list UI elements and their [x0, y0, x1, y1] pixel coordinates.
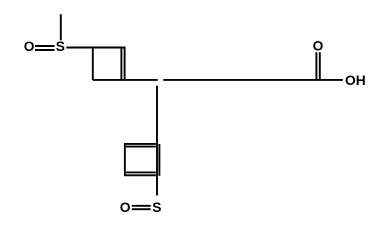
bond C=O2 line b: [319, 52, 321, 80]
bond rail left (ring1 bottom to junction): [93, 79, 158, 81]
svg-text:OH: OH: [345, 73, 366, 88]
bond methyl-S1: [60, 14, 62, 40]
svg-text:S: S: [152, 200, 161, 215]
ring2 right edge outer (double bond): [158, 144, 160, 176]
ring1 right edge inner (double bond): [120, 48, 122, 80]
ring1 right edge outer: [124, 48, 126, 80]
ring2 top edge inner (double bond): [126, 146, 156, 148]
svg-text:O: O: [24, 39, 35, 54]
ring2 bottom edge inner (double bond): [126, 171, 156, 173]
bond C=O2 line a: [315, 52, 317, 80]
svg-text:S: S: [56, 39, 65, 54]
bond S1=O1 line b: [35, 49, 55, 51]
ring1 left edge: [92, 47, 94, 80]
bond S1-ring1: [66, 47, 92, 49]
bond S2=O4 line a: [132, 205, 151, 207]
bond rail right (junction to carboxyl C): [163, 79, 343, 81]
ring2 top edge outer: [124, 143, 156, 145]
ring1 top edge: [92, 47, 126, 49]
svg-text:O: O: [120, 200, 131, 215]
bond junction down to ring2 and S2: [156, 86, 158, 196]
bond S1=O1 line a: [35, 45, 55, 47]
bond S2=O4 line b: [132, 208, 151, 210]
ring2 bottom edge outer: [124, 174, 156, 176]
ring2 left edge: [124, 144, 126, 175]
svg-text:O: O: [313, 39, 324, 54]
